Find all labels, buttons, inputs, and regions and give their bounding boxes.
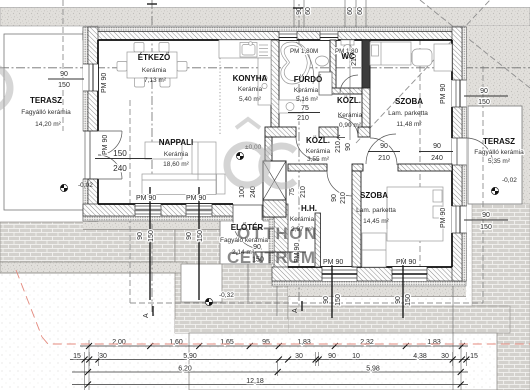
right terrace outline bbox=[468, 106, 522, 204]
bath washer bbox=[279, 100, 303, 113]
svg-text:1,83: 1,83 bbox=[297, 339, 311, 346]
svg-text:2,32: 2,32 bbox=[360, 339, 374, 346]
right wall window 2 bbox=[452, 206, 467, 233]
svg-text:150: 150 bbox=[335, 294, 342, 306]
right wall window 1 bbox=[452, 80, 467, 107]
bath: tub bbox=[281, 42, 311, 84]
wall hh/szoba2 bbox=[352, 171, 361, 267]
svg-text:150: 150 bbox=[148, 230, 155, 242]
dining table + chairs bbox=[134, 43, 144, 53]
svg-text:KÖZL.: KÖZL. bbox=[306, 136, 330, 145]
svg-text:PM 90: PM 90 bbox=[440, 208, 447, 228]
svg-text:14,45 m²: 14,45 m² bbox=[363, 218, 389, 225]
svg-text:60: 60 bbox=[347, 7, 354, 15]
svg-text:90: 90 bbox=[331, 194, 338, 202]
svg-text:12,18: 12,18 bbox=[246, 378, 264, 385]
svg-text:90: 90 bbox=[60, 71, 68, 78]
svg-text:Fagyálló kerámia: Fagyálló kerámia bbox=[474, 149, 524, 156]
svg-text:2,00: 2,00 bbox=[112, 339, 126, 346]
svg-text:NAPPALI: NAPPALI bbox=[159, 138, 194, 147]
svg-text:1,83: 1,83 bbox=[427, 339, 441, 346]
svg-text:210: 210 bbox=[340, 192, 347, 204]
svg-text:95: 95 bbox=[262, 339, 270, 346]
svg-text:10: 10 bbox=[352, 353, 360, 360]
svg-text:7,13 m²: 7,13 m² bbox=[144, 77, 167, 84]
svg-text:90: 90 bbox=[433, 143, 441, 150]
svg-text:PM 1,80M: PM 1,80M bbox=[290, 48, 318, 55]
svg-text:WC: WC bbox=[341, 52, 355, 61]
svg-text:KÖZL.: KÖZL. bbox=[337, 96, 361, 105]
step / landing white rect bbox=[181, 264, 222, 302]
svg-text:5,16 m²: 5,16 m² bbox=[296, 96, 319, 103]
top exterior wall bbox=[83, 27, 466, 32]
wall fürdő/wc bbox=[330, 40, 336, 93]
svg-text:90: 90 bbox=[482, 212, 490, 219]
svg-text:5,98: 5,98 bbox=[366, 366, 380, 373]
svg-text:150: 150 bbox=[405, 294, 412, 306]
svg-text:90: 90 bbox=[395, 296, 402, 304]
wc toilet bbox=[341, 40, 354, 45]
svg-text:Lam. parketta: Lam. parketta bbox=[388, 110, 428, 117]
svg-text:KONYHA: KONYHA bbox=[233, 74, 268, 83]
svg-text:-0,32: -0,32 bbox=[219, 292, 234, 299]
svg-text:90: 90 bbox=[186, 232, 193, 240]
axis lines dash-dot bbox=[0, 0, 530, 312]
svg-text:PM 90: PM 90 bbox=[396, 259, 416, 266]
svg-text:-0,02: -0,02 bbox=[502, 177, 517, 184]
svg-text:60: 60 bbox=[305, 7, 312, 15]
watermark Otthon Centrum logo bbox=[0, 66, 318, 267]
kitchen dashed front bbox=[219, 58, 221, 136]
svg-text:15: 15 bbox=[470, 353, 478, 360]
svg-text:PM 90: PM 90 bbox=[136, 195, 156, 202]
svg-text:A: A bbox=[292, 308, 299, 313]
svg-text:A: A bbox=[143, 313, 150, 318]
kitchen counter bbox=[219, 40, 271, 58]
svg-text:0,90 m²: 0,90 m² bbox=[339, 122, 362, 129]
svg-text:60: 60 bbox=[357, 7, 364, 15]
extension lines bottom bbox=[85, 264, 467, 390]
svg-text:18,60 m²: 18,60 m² bbox=[163, 161, 189, 168]
svg-text:210: 210 bbox=[378, 155, 390, 162]
boiler bbox=[319, 72, 332, 95]
svg-text:Kerámia: Kerámia bbox=[294, 87, 319, 94]
svg-text:ÉTKEZŐ: ÉTKEZŐ bbox=[138, 53, 170, 62]
svg-text:OTTHON: OTTHON bbox=[237, 224, 318, 243]
svg-text:CENTRUM: CENTRUM bbox=[227, 248, 316, 267]
svg-text:TERASZ: TERASZ bbox=[30, 96, 62, 105]
bottom wall left wing bbox=[83, 216, 274, 221]
svg-text:SZOBA: SZOBA bbox=[360, 191, 388, 200]
corridor bottom wall / szoba2 top wall bbox=[288, 164, 327, 171]
left exterior wall lower (corner) bbox=[83, 179, 88, 221]
window wing 1 bbox=[322, 267, 357, 281]
paved brick band left (walkway) bbox=[0, 222, 288, 333]
svg-text:Kerámia: Kerámia bbox=[306, 148, 331, 155]
svg-text:4,38: 4,38 bbox=[413, 353, 427, 360]
porch right wall bbox=[274, 204, 288, 281]
right wall door bbox=[452, 138, 467, 165]
nappali sofa L bbox=[145, 142, 182, 159]
svg-text:210: 210 bbox=[300, 186, 307, 198]
svg-text:Kerámia: Kerámia bbox=[238, 86, 263, 93]
svg-text:PM 90: PM 90 bbox=[102, 135, 109, 155]
red boundary lines bbox=[16, 270, 530, 344]
chimney block bbox=[263, 161, 286, 217]
svg-text:150: 150 bbox=[480, 224, 492, 231]
room labels bbox=[21, 52, 524, 256]
bottom wall bedroom wing bbox=[272, 281, 466, 286]
top wall window 1 (fürdő) bbox=[279, 32, 297, 41]
brick area right side bbox=[472, 204, 530, 390]
svg-text:PM 90: PM 90 bbox=[440, 84, 447, 104]
window bottom-left 2 bbox=[186, 204, 212, 216]
svg-text:30: 30 bbox=[99, 353, 107, 360]
svg-text:150: 150 bbox=[58, 82, 70, 89]
wall under wc bbox=[330, 88, 362, 94]
svg-text:PM 90: PM 90 bbox=[101, 73, 108, 93]
svg-text:PM 90: PM 90 bbox=[186, 195, 206, 202]
wall konyha/fürdő bbox=[271, 40, 279, 137]
svg-text:6,20: 6,20 bbox=[178, 366, 192, 373]
window wing 2 bbox=[392, 267, 427, 281]
rotated dim labels bbox=[137, 54, 412, 306]
svg-text:15: 15 bbox=[73, 353, 81, 360]
corridor top wall bbox=[265, 127, 296, 137]
dashed roof lines bbox=[63, 0, 530, 303]
svg-text:Kerámia: Kerámia bbox=[338, 112, 363, 119]
svg-text:90: 90 bbox=[328, 353, 336, 360]
svg-text:90: 90 bbox=[480, 88, 488, 95]
svg-text:210: 210 bbox=[335, 141, 342, 153]
svg-text:90: 90 bbox=[345, 143, 352, 151]
svg-text:240: 240 bbox=[431, 155, 443, 162]
gravel band along top bbox=[0, 8, 530, 205]
svg-text:Kerámia: Kerámia bbox=[164, 151, 189, 158]
svg-text:75: 75 bbox=[289, 188, 296, 196]
house interior white bbox=[88, 31, 462, 216]
svg-text:Kerámia: Kerámia bbox=[142, 67, 167, 74]
szoba2 bed bbox=[387, 187, 443, 241]
svg-text:14,20 m²: 14,20 m² bbox=[35, 121, 61, 128]
dimension chain row1 bbox=[80, 345, 468, 347]
svg-text:3,55 m²: 3,55 m² bbox=[307, 156, 330, 163]
right exterior wall bbox=[462, 27, 467, 281]
left exterior wall upper bbox=[83, 27, 88, 131]
svg-text:210: 210 bbox=[297, 115, 309, 122]
level markers bbox=[78, 144, 517, 299]
PM labels bbox=[101, 73, 447, 266]
svg-text:30: 30 bbox=[441, 353, 449, 360]
stacked dim labels bbox=[58, 71, 492, 264]
row texts bbox=[73, 339, 478, 385]
svg-text:TERASZ: TERASZ bbox=[483, 137, 515, 146]
svg-text:150: 150 bbox=[478, 99, 490, 106]
top wall window 2 (wc) bbox=[320, 32, 338, 41]
window left wall (étkező) bbox=[83, 64, 98, 91]
dimension chain row4 bbox=[72, 384, 468, 386]
svg-text:90: 90 bbox=[137, 232, 144, 240]
svg-text:-0,02: -0,02 bbox=[78, 182, 93, 189]
bottom big terrace / drive bbox=[175, 306, 510, 390]
svg-text:150: 150 bbox=[197, 230, 204, 242]
door swing arcs bbox=[98, 75, 493, 249]
gravel drain strips below walls bbox=[83, 221, 288, 230]
svg-text:SZOBA: SZOBA bbox=[395, 97, 423, 106]
svg-text:Fagyálló kerámia: Fagyálló kerámia bbox=[21, 109, 71, 116]
section markers A bbox=[143, 4, 303, 318]
svg-text:5,35 m²: 5,35 m² bbox=[488, 158, 511, 165]
window bottom-left 1 bbox=[135, 204, 161, 216]
svg-text:11,48 m²: 11,48 m² bbox=[396, 121, 422, 128]
svg-text:30: 30 bbox=[295, 353, 303, 360]
svg-text:FÜRDŐ: FÜRDŐ bbox=[294, 75, 322, 84]
svg-text:1,65: 1,65 bbox=[220, 339, 234, 346]
terrace door opening left wall bbox=[83, 131, 98, 179]
svg-text:Lam. parketta: Lam. parketta bbox=[356, 207, 396, 214]
svg-text:Kerámia: Kerámia bbox=[290, 216, 315, 223]
svg-text:1,60: 1,60 bbox=[169, 339, 183, 346]
svg-text:75: 75 bbox=[301, 105, 309, 112]
svg-text:PM 90: PM 90 bbox=[323, 259, 343, 266]
svg-text:5,40 m²: 5,40 m² bbox=[239, 96, 262, 103]
porch floor bbox=[220, 219, 274, 264]
svg-text:150: 150 bbox=[113, 149, 127, 158]
left terrace outline bbox=[4, 34, 85, 210]
entry door opening bbox=[233, 203, 263, 222]
svg-text:90: 90 bbox=[323, 296, 330, 304]
dimension chain row3 bbox=[72, 371, 468, 373]
szoba1 bed bbox=[370, 42, 411, 65]
svg-text:240: 240 bbox=[113, 164, 127, 173]
svg-text:H.H.: H.H. bbox=[301, 204, 317, 213]
svg-text:90: 90 bbox=[380, 143, 388, 150]
svg-text:5,90: 5,90 bbox=[183, 353, 197, 360]
top extension lines + rotated dims bbox=[294, 0, 366, 140]
szoba1 left wall bbox=[362, 40, 370, 127]
dimension chain row2 bbox=[70, 359, 470, 361]
